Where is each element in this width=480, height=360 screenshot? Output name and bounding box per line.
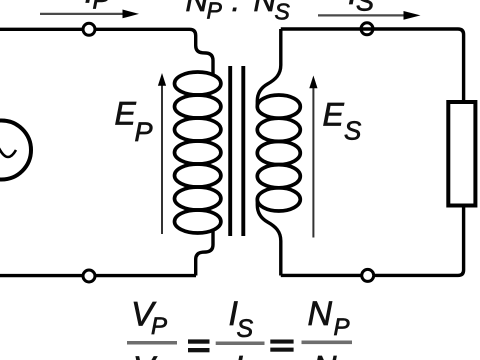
wire secondary bottom — [257, 199, 281, 275]
wire top-left — [0, 29, 213, 76]
transformer core — [230, 66, 243, 236]
wire secondary top — [257, 29, 281, 107]
arrow IP — [40, 10, 139, 19]
node terminal top-right — [361, 23, 373, 35]
wire bottom-right — [281, 206, 464, 276]
node terminal bottom-left — [83, 270, 95, 282]
node terminal top-left — [83, 23, 95, 35]
inductor L1 primary coil — [175, 72, 221, 233]
wire bottom-left — [0, 274, 196, 277]
wire top-right — [281, 29, 464, 101]
equals sign 2 — [270, 340, 293, 352]
fraction bar 3 — [302, 341, 353, 345]
resistor R load — [448, 102, 475, 206]
equals sign 1 — [188, 339, 210, 352]
AC source V1 — [0, 121, 31, 180]
wire primary bottom hook — [196, 229, 213, 276]
node terminal bottom-right — [362, 269, 374, 281]
arrow EP — [158, 73, 166, 234]
arrow ES — [309, 76, 317, 238]
fraction bar 2 — [216, 342, 265, 346]
inductor L2 secondary coil — [257, 95, 300, 211]
fraction bar 1 — [127, 341, 177, 345]
arrow IS — [318, 11, 421, 20]
